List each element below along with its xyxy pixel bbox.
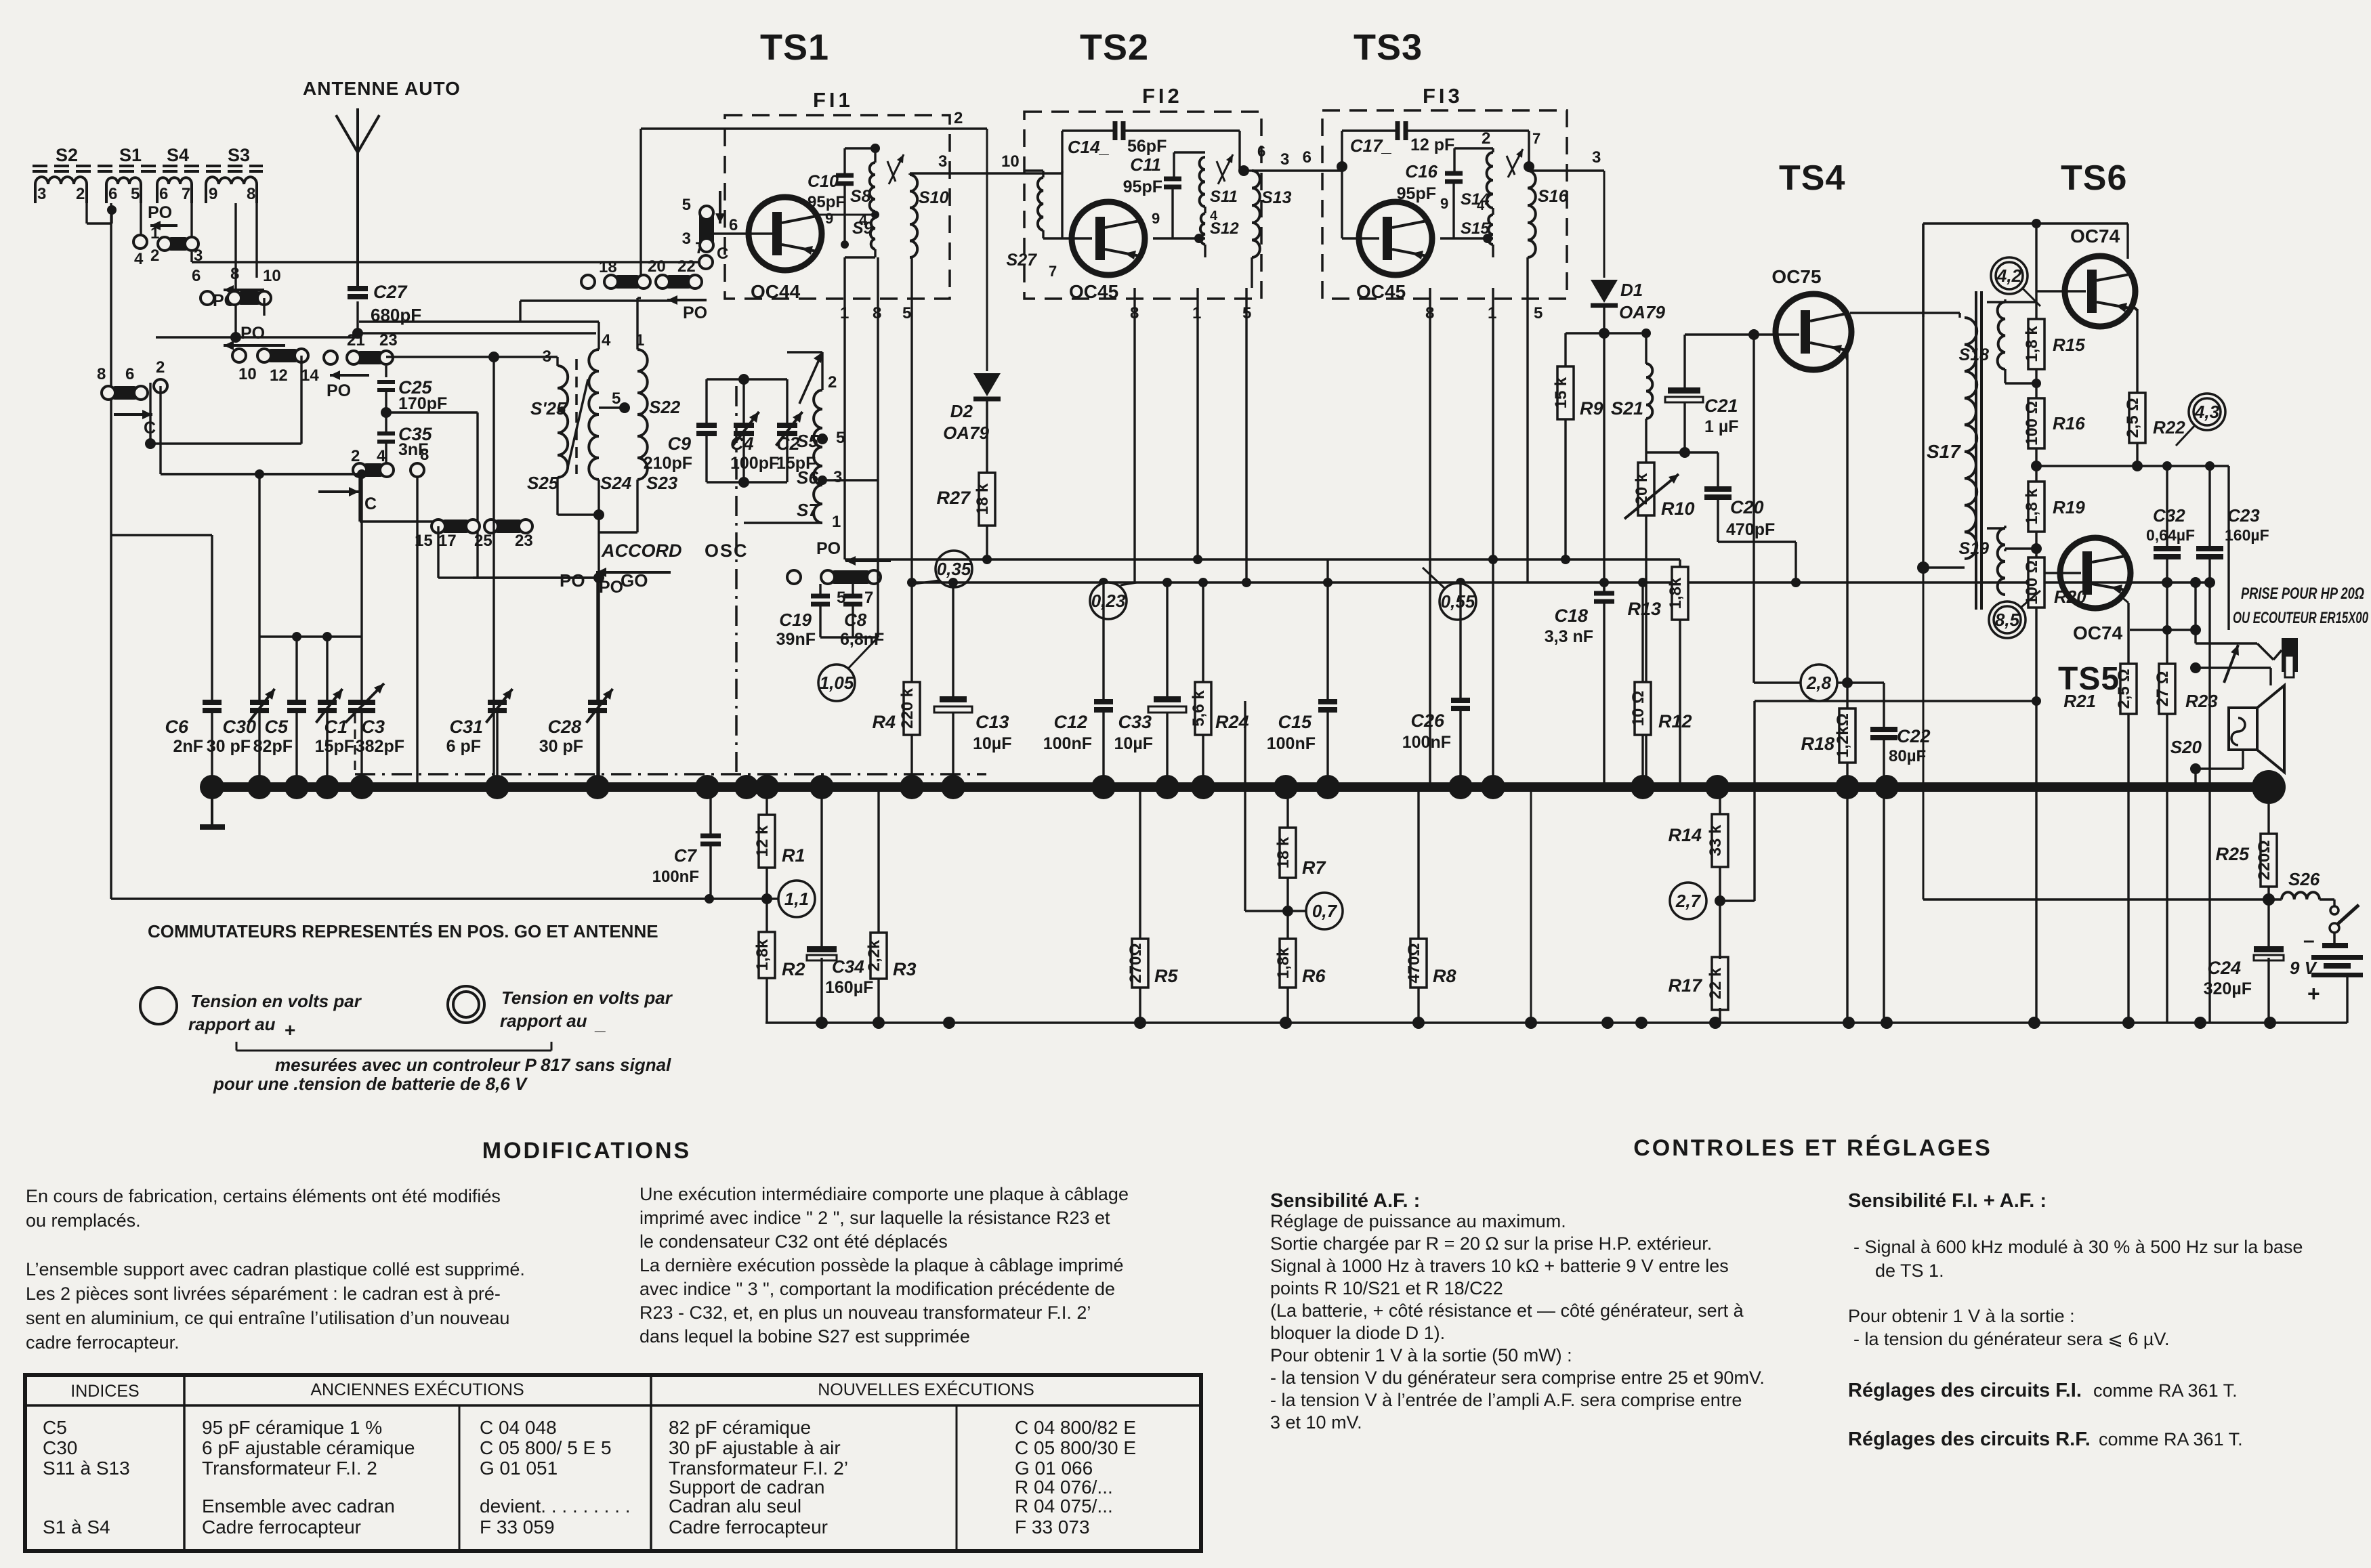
wire [707, 481, 787, 483]
wire speaker top [2269, 668, 2271, 685]
resistor R12 [1635, 682, 1651, 735]
svg-text:Une exécution intermédiaire: Une exécution intermédiaire comporte une… [639, 1184, 1129, 1204]
svg-text:C17_: C17_ [1350, 135, 1392, 156]
IF transformer FI2 box [1024, 112, 1261, 299]
svg-text:170pF: 170pF [398, 394, 447, 413]
rail junction [1881, 1017, 1893, 1029]
transistor TS3 OC45 [1359, 202, 1432, 275]
svg-text:R12: R12 [1658, 711, 1692, 732]
svg-text:9: 9 [825, 210, 833, 227]
wire pin5 FI2 [1245, 288, 1247, 582]
wire [85, 203, 87, 224]
svg-text:R5: R5 [1154, 966, 1178, 986]
svg-text:R8: R8 [1433, 966, 1456, 986]
coil S24 [589, 349, 599, 480]
svg-text:devient. . . . . . . . .: devient. . . . . . . . . [480, 1496, 631, 1517]
wire pin1 [843, 257, 845, 559]
wire [596, 711, 598, 787]
legend circle + [140, 988, 177, 1024]
bus junction [200, 775, 224, 799]
bus junction [585, 775, 610, 799]
wire [1174, 151, 1205, 153]
wire [1166, 582, 1168, 696]
svg-text:S1: S1 [119, 145, 142, 165]
svg-text:OA79: OA79 [1619, 302, 1665, 322]
transistor TS6b OC74 bottom [2060, 538, 2131, 608]
svg-text:1,1: 1,1 [784, 889, 809, 909]
voltage 0,35 [936, 551, 972, 587]
svg-text:NOUVELLES EXÉCUTIONS: NOUVELLES EXÉCUTIONS [818, 1380, 1034, 1399]
svg-text:S24: S24 [600, 473, 632, 493]
wire [263, 298, 265, 316]
node [381, 407, 392, 418]
capacitor C14 [1113, 121, 1118, 140]
wire ACCORD junction [597, 515, 600, 578]
wire [1987, 301, 2005, 303]
svg-text:1,8 k: 1,8 k [2023, 488, 2041, 525]
svg-text:C5: C5 [43, 1417, 67, 1438]
base wire TS6a [2036, 290, 2086, 292]
svg-text:OC74: OC74 [2070, 226, 2120, 247]
transformer core [1975, 291, 1977, 610]
svg-text:100nF: 100nF [1402, 733, 1451, 752]
svg-text:3: 3 [833, 468, 842, 486]
svg-text:le condensateur C32 ont ét: le condensateur C32 ont été déplacés [639, 1231, 948, 1252]
diode D1 OA79 [1591, 280, 1618, 303]
svg-text:95pF: 95pF [1397, 184, 1436, 203]
wire [986, 129, 988, 371]
potentiometer R10 [1638, 463, 1654, 515]
wire [2035, 532, 2037, 557]
transformer S17 primary [1965, 318, 1977, 559]
svg-text:14: 14 [301, 366, 319, 385]
jack arrow [2224, 645, 2238, 683]
svg-text:F 33 059: F 33 059 [480, 1517, 555, 1538]
svg-text:22 k: 22 k [1706, 967, 1725, 999]
bus junction [900, 775, 924, 799]
battery 9V cells [2311, 955, 2363, 960]
svg-text:7: 7 [1049, 263, 1057, 280]
bus junction [1155, 775, 1179, 799]
svg-text:9: 9 [209, 185, 217, 203]
bus junction [1274, 775, 1298, 799]
svg-text:C14_: C14_ [1068, 137, 1110, 157]
svg-text:5: 5 [682, 196, 691, 214]
capacitor C9 [696, 423, 717, 428]
wire [234, 203, 236, 337]
IF transformer FI3 box [1322, 110, 1567, 299]
wire [211, 711, 213, 787]
wire [1685, 451, 1718, 453]
svg-text:R4: R4 [872, 712, 896, 732]
svg-text:OC45: OC45 [1069, 281, 1118, 302]
svg-text:100pF: 100pF [730, 454, 779, 473]
transistor TS6a OC74 top [2065, 256, 2135, 326]
coil S9 [870, 218, 875, 249]
wire [1459, 582, 1461, 700]
svg-text:TS6: TS6 [2061, 158, 2127, 198]
svg-text:FI2: FI2 [1142, 84, 1183, 108]
wire [2194, 582, 2196, 630]
wire collector TS6a [2136, 309, 2138, 393]
capacitor C7 [700, 834, 721, 839]
svg-text:R19: R19 [2053, 497, 2085, 517]
svg-text:R3: R3 [893, 959, 917, 979]
svg-text:Réglages des circuits F.I.: Réglages des circuits F.I. [1848, 1380, 2082, 1401]
svg-text:sent en aluminium, ce qui e: sent en aluminium, ce qui entraîne l’uti… [26, 1308, 509, 1328]
bus junction [350, 775, 374, 799]
svg-text:Tension en volts par: Tension en volts par [190, 991, 362, 1011]
capacitor C8 [843, 594, 862, 599]
capacitor C13 [940, 696, 967, 702]
switch contact 8-6 bottom [108, 386, 141, 400]
svg-text:C22: C22 [1897, 726, 1931, 746]
mid wire B [845, 558, 1680, 560]
svg-text:9 V: 9 V [2290, 958, 2318, 978]
wire [295, 711, 297, 787]
switch contact 25-23 [491, 520, 526, 533]
capacitor C31 variable [488, 700, 507, 705]
legend circle - [448, 986, 484, 1023]
svg-text:S6: S6 [797, 467, 818, 488]
resistor R21 [2120, 664, 2137, 714]
svg-text:C3: C3 [361, 717, 385, 737]
svg-text:CONTROLES ET RÉGLAGES: CONTROLES ET RÉGLAGES [1633, 1135, 1992, 1161]
capacitor C27 [348, 286, 368, 291]
wire [1883, 683, 1885, 729]
emitter wire [1846, 353, 1848, 708]
svg-text:imprimé avec indice " 2 ",: imprimé avec indice " 2 ", sur laquelle … [639, 1208, 1110, 1228]
svg-text:3: 3 [543, 347, 551, 366]
svg-text:Sensibilité A.F. :: Sensibilité A.F. : [1270, 1190, 1420, 1212]
wire FI1-FI2 link [1024, 172, 1062, 174]
svg-text:S25: S25 [527, 473, 559, 493]
table divider indices [183, 1375, 186, 1551]
svg-text:S13: S13 [1261, 188, 1292, 207]
coil S21 [1646, 364, 1652, 419]
tuning arrow FI3 [1508, 149, 1523, 177]
svg-text:C19: C19 [779, 610, 812, 630]
resistor R3 [870, 933, 887, 979]
svg-text:10 Ω: 10 Ω [1629, 691, 1648, 727]
svg-text:C7: C7 [674, 845, 698, 866]
wire [952, 582, 954, 696]
wire pin1 FI2 [1196, 288, 1198, 559]
svg-text:C13: C13 [975, 712, 1009, 732]
svg-text:F 33 073: F 33 073 [1015, 1517, 1090, 1538]
collector wire [1850, 312, 1960, 314]
svg-text:R7: R7 [1302, 857, 1326, 878]
bus junction [810, 775, 834, 799]
svg-text:8: 8 [97, 365, 106, 383]
svg-text:S17: S17 [1927, 441, 1961, 462]
svg-text:95pF: 95pF [1123, 177, 1162, 196]
node [870, 144, 880, 153]
wire [259, 473, 362, 475]
wire [986, 526, 988, 559]
svg-text:Sensibilité F.I. + A.F. :: Sensibilité F.I. + A.F. : [1848, 1190, 2047, 1212]
wire [1679, 559, 1681, 567]
svg-text:S5: S5 [797, 431, 818, 451]
capacitor C15 [1318, 699, 1337, 704]
svg-text:1,8k: 1,8k [753, 939, 772, 971]
svg-text:210pF: 210pF [644, 454, 692, 473]
wire [1251, 257, 1253, 288]
svg-text:TS2: TS2 [1080, 27, 1149, 68]
svg-text:C15: C15 [1278, 712, 1312, 732]
svg-text:82pF: 82pF [253, 737, 293, 756]
svg-text:6: 6 [1303, 148, 1312, 167]
svg-text:82 pF céramique: 82 pF céramique [669, 1417, 811, 1438]
capacitor C28 variable [588, 700, 607, 705]
voltage 0,7 [1282, 906, 1293, 916]
coil S5/S6/S7 [814, 390, 822, 523]
svg-text:pour une .tension de batter: pour une .tension de batterie de 8,6 V [213, 1074, 528, 1094]
capacitor C3 variable [348, 700, 375, 705]
wire [910, 257, 912, 582]
svg-text:C: C [144, 419, 156, 438]
wire [599, 531, 637, 533]
svg-text:ou remplacés.: ou remplacés. [26, 1210, 141, 1231]
svg-text:21: 21 [347, 331, 365, 349]
svg-text:- la tension du générateu: - la tension du générateur sera ⩽ 6 µV. [1853, 1329, 2169, 1349]
svg-text:C26: C26 [1410, 711, 1445, 731]
wire [765, 978, 768, 1023]
svg-text:C5: C5 [264, 717, 288, 737]
coil S8 [870, 163, 875, 211]
diode D2 OA79 [973, 373, 1001, 396]
wire to jack [2196, 642, 2257, 644]
svg-text:C21: C21 [1704, 396, 1738, 416]
capacitor C16 [1445, 171, 1463, 176]
bus junction [315, 775, 339, 799]
svg-text:270Ω: 270Ω [1127, 943, 1145, 983]
svg-text:Transformateur F.I. 2: Transformateur F.I. 2 [202, 1458, 377, 1479]
switch contact 8-10 [234, 291, 264, 305]
svg-text:Signal à 1000 Hz à traver: Signal à 1000 Hz à travers 10 kΩ + batte… [1270, 1256, 1729, 1276]
svg-text:C 04 800/82 E: C 04 800/82 E [1015, 1417, 1136, 1438]
wire top 2 [641, 127, 987, 129]
svg-text:30 pF: 30 pF [539, 737, 583, 756]
svg-text:C: C [364, 494, 377, 513]
wire [438, 576, 599, 578]
svg-text:C27: C27 [373, 282, 408, 302]
node [1679, 447, 1690, 458]
capacitor C10 [836, 173, 854, 178]
transistor TS1 OC44 [749, 197, 822, 270]
rail junction [2028, 1017, 2040, 1029]
svg-text:0,23: 0,23 [1091, 591, 1126, 611]
svg-text:Réglage de puissance au ma: Réglage de puissance au maximum. [1270, 1211, 1566, 1231]
wire [385, 366, 387, 377]
svg-text:C8: C8 [844, 610, 867, 630]
svg-text:33 k: 33 k [1706, 824, 1725, 856]
wire [1603, 582, 1605, 593]
coil S26 [2282, 892, 2320, 899]
svg-text:3: 3 [1280, 150, 1289, 169]
svg-text:10: 10 [263, 267, 281, 285]
svg-text:OC75: OC75 [1771, 266, 1821, 287]
svg-text:1,8k: 1,8k [1274, 947, 1293, 979]
wire [358, 477, 360, 522]
svg-text:FI1: FI1 [813, 88, 854, 112]
wire [1641, 582, 1643, 682]
voltage 0,55 [1440, 583, 1476, 620]
svg-text:C18: C18 [1554, 606, 1588, 626]
node [292, 632, 301, 641]
rail junction [2264, 1017, 2276, 1029]
wire [1530, 787, 1532, 1023]
svg-text:S21: S21 [1611, 398, 1643, 419]
wire [1526, 257, 1528, 288]
svg-text:Tension en volts par: Tension en volts par [501, 988, 673, 1008]
wire [1043, 237, 1092, 239]
svg-text:7: 7 [182, 185, 190, 203]
svg-text:18: 18 [599, 258, 617, 276]
node [1238, 165, 1249, 176]
capacitor C18 [1594, 591, 1614, 596]
switch PO arrow 18-22 [520, 299, 677, 301]
wire [744, 522, 822, 524]
svg-text:95pF: 95pF [807, 193, 845, 211]
svg-text:8: 8 [247, 185, 255, 203]
wire [556, 357, 558, 366]
svg-text:C6: C6 [165, 717, 188, 737]
wire top TS6 [1923, 222, 2128, 224]
svg-text:3,3 nF: 3,3 nF [1545, 627, 1593, 646]
svg-text:7: 7 [864, 589, 873, 607]
svg-text:S27: S27 [1007, 251, 1038, 270]
ground stub [211, 792, 213, 825]
svg-text:15: 15 [415, 532, 433, 550]
svg-text:C30: C30 [43, 1437, 77, 1458]
svg-text:R1: R1 [782, 845, 805, 866]
svg-text:PO: PO [560, 570, 585, 591]
resistor R7 [1280, 828, 1296, 878]
svg-text:0,55: 0,55 [1441, 591, 1475, 612]
rail junction [1843, 1017, 1855, 1029]
svg-text:5: 5 [1534, 304, 1543, 322]
svg-text:6: 6 [108, 185, 117, 203]
svg-text:R25: R25 [2215, 844, 2250, 864]
bus junction [1316, 775, 1340, 799]
wire [1342, 129, 1396, 131]
svg-text:5,6 k: 5,6 k [1190, 690, 1208, 727]
svg-text:Pour obtenir 1 V à la so: Pour obtenir 1 V à la sortie : [1848, 1306, 2075, 1326]
svg-text:Support de cadran: Support de cadran [669, 1477, 824, 1498]
capacitor C35 [377, 431, 395, 436]
svg-text:Pour obtenir 1 V à la so: Pour obtenir 1 V à la sortie (50 mW) : [1270, 1345, 1572, 1365]
switch contact TS1 base [699, 209, 714, 249]
wire pin8 [877, 257, 879, 480]
rail junction [2122, 1017, 2135, 1029]
svg-text:G 01 051: G 01 051 [480, 1458, 558, 1479]
svg-text:C23: C23 [2227, 505, 2260, 526]
wire [819, 584, 821, 595]
wire base feed down [1753, 335, 1755, 683]
svg-text:MODIFICATIONS: MODIFICATIONS [482, 1138, 691, 1164]
svg-text:+: + [2307, 981, 2320, 1006]
svg-text:S8: S8 [850, 187, 871, 206]
contact circle [787, 570, 801, 584]
svg-text:OC45: OC45 [1356, 281, 1406, 302]
svg-text:S20: S20 [2170, 737, 2202, 757]
svg-text:S11 à S13: S11 à S13 [43, 1458, 130, 1479]
battery minus bar [2322, 943, 2348, 948]
resistor R13 [1672, 567, 1688, 620]
wire [1326, 559, 1328, 701]
mid wire A [912, 581, 2210, 583]
svg-text:R 04 076/...: R 04 076/... [1015, 1477, 1113, 1498]
svg-text:C 05 800/30 E: C 05 800/30 E [1015, 1437, 1136, 1458]
contact 4 [133, 235, 147, 249]
base wire TS6b [2044, 572, 2081, 574]
wire [814, 214, 875, 216]
svg-text:5: 5 [612, 389, 621, 408]
svg-text:C 04 048: C 04 048 [480, 1417, 557, 1438]
svg-text:160µF: 160µF [2225, 526, 2269, 544]
svg-text:3: 3 [682, 230, 691, 248]
wire [190, 203, 192, 238]
switch arrow 3 [224, 344, 285, 347]
svg-text:de TS 1.: de TS 1. [1875, 1260, 1944, 1281]
svg-text:10µF: 10µF [1114, 734, 1153, 753]
svg-text:1: 1 [832, 513, 841, 531]
wire [149, 383, 151, 444]
capacitor C30 variable [250, 700, 269, 705]
wire [255, 203, 257, 278]
svg-text:C20: C20 [1730, 497, 1764, 517]
wire [1564, 333, 1566, 366]
svg-text:PO: PO [816, 539, 841, 558]
svg-text:3: 3 [1592, 148, 1601, 167]
wire [2126, 224, 2128, 259]
svg-text:S1 à S4: S1 à S4 [43, 1517, 110, 1538]
svg-text:C32: C32 [2153, 505, 2185, 526]
ground bus (- rail) [205, 782, 2269, 792]
wire [1286, 787, 1288, 828]
svg-text:ACCORD: ACCORD [601, 541, 682, 561]
svg-text:S14: S14 [1461, 190, 1490, 209]
svg-text:R2: R2 [782, 959, 805, 979]
svg-text:5: 5 [131, 185, 140, 203]
svg-text:R13: R13 [1627, 599, 1661, 619]
svg-text:8: 8 [230, 265, 239, 283]
svg-text:C31: C31 [449, 717, 483, 737]
node S6 tap [822, 478, 823, 479]
rail junction [816, 1017, 828, 1029]
svg-text:0,7: 0,7 [1312, 901, 1338, 921]
bus junction [1835, 775, 1860, 799]
svg-text:mesurées avec un controleur: mesurées avec un controleur P 817 sans s… [275, 1055, 671, 1075]
svg-text:R24: R24 [1215, 712, 1249, 732]
svg-text:bloquer la diode D 1).: bloquer la diode D 1). [1270, 1323, 1445, 1343]
svg-text:R 04 075/...: R 04 075/... [1015, 1496, 1113, 1517]
wire [597, 480, 600, 515]
svg-text:PO: PO [683, 303, 707, 322]
wire [910, 582, 912, 682]
svg-text:8: 8 [420, 446, 429, 464]
wire [1645, 333, 1647, 364]
wire out FI3 [1529, 169, 1604, 171]
svg-text:TS3: TS3 [1354, 27, 1423, 68]
bus junction [941, 775, 965, 799]
svg-text:rapport au: rapport au [188, 1014, 276, 1034]
svg-text:R9: R9 [1580, 398, 1603, 419]
svg-text:R23: R23 [2185, 691, 2218, 711]
svg-text:9: 9 [1152, 210, 1160, 227]
svg-text:6: 6 [1257, 143, 1265, 160]
